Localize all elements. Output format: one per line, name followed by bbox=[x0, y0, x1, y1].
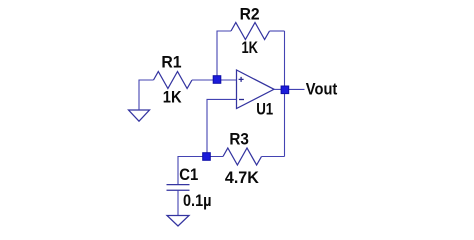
ground (left, at R1 input) bbox=[129, 110, 150, 121]
wire: R1 to node A and op-amp + input bbox=[192, 79, 237, 81]
pin - (inverting input) bbox=[239, 99, 244, 101]
svg-text:R1: R1 bbox=[161, 52, 181, 71]
ground (bottom, under C1) bbox=[167, 216, 189, 227]
node C (R3/C1 junction at - input) bbox=[203, 153, 211, 161]
svg-text:4.7K: 4.7K bbox=[225, 168, 260, 187]
wire: node A up to R2 left lead bbox=[217, 31, 231, 80]
node B (output junction) bbox=[281, 86, 289, 94]
capacitor C1 bbox=[167, 185, 190, 191]
resistor R1 bbox=[154, 72, 193, 89]
wire: R3 left lead from node C bbox=[207, 156, 224, 158]
wire: node C left to capacitor C1 top lead bbox=[178, 157, 207, 185]
svg-text:Vout: Vout bbox=[306, 80, 338, 99]
resistor R2 bbox=[231, 23, 270, 40]
pin + (non-inverting input) bbox=[239, 77, 244, 82]
wire: left ground riser up to R1 left lead bbox=[139, 80, 154, 110]
wire: node B to Vout stub bbox=[285, 88, 305, 90]
svg-text:U1: U1 bbox=[256, 99, 273, 118]
wire: C1 bottom lead to ground bbox=[177, 190, 179, 215]
wire: R2 right lead to right rail bbox=[270, 30, 285, 32]
op-amp U1 bbox=[237, 70, 275, 109]
svg-text:0.1µ: 0.1µ bbox=[183, 191, 212, 210]
wire: R3 right lead to right rail bbox=[262, 156, 285, 158]
svg-text:R2: R2 bbox=[240, 4, 260, 23]
wire: node C up to inverting input bbox=[207, 99, 237, 156]
wire: right rail from R2 down through output node to R3 bbox=[284, 31, 286, 157]
wire: op-amp output to node B bbox=[274, 88, 285, 90]
svg-text:1K: 1K bbox=[241, 38, 258, 57]
resistor R3 bbox=[223, 148, 262, 165]
svg-text:R3: R3 bbox=[229, 129, 249, 148]
node A (feedback junction at + input) bbox=[213, 76, 221, 84]
svg-text:C1: C1 bbox=[179, 165, 198, 184]
svg-text:1K: 1K bbox=[163, 87, 182, 106]
